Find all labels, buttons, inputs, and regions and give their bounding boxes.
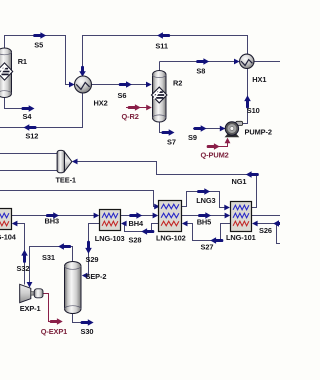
svg-text:HX1: HX1 — [252, 75, 266, 84]
svg-text:S32: S32 — [17, 264, 30, 273]
svg-text:S4: S4 — [23, 112, 33, 121]
svg-text:EXP-1: EXP-1 — [20, 304, 41, 313]
svg-text:Q-EXP1: Q-EXP1 — [41, 327, 68, 336]
svg-text:LNG-103: LNG-103 — [95, 234, 125, 243]
svg-text:R2: R2 — [173, 79, 182, 88]
svg-text:S30: S30 — [81, 327, 94, 336]
svg-text:Q-PUM2: Q-PUM2 — [201, 151, 229, 160]
svg-text:S6: S6 — [118, 91, 127, 100]
svg-text:NG1: NG1 — [232, 177, 247, 186]
svg-text:Q-R2: Q-R2 — [122, 112, 139, 121]
svg-text:SEP-2: SEP-2 — [86, 272, 107, 281]
svg-text:S12: S12 — [25, 131, 38, 140]
svg-text:TEE-1: TEE-1 — [56, 176, 76, 185]
svg-text:HX2: HX2 — [94, 98, 108, 107]
svg-text:S31: S31 — [42, 253, 55, 262]
svg-text:S10: S10 — [247, 106, 260, 115]
svg-text:S5: S5 — [34, 40, 43, 49]
svg-text:S8: S8 — [196, 66, 205, 75]
svg-text:BH5: BH5 — [197, 218, 212, 227]
svg-text:BH4: BH4 — [129, 219, 144, 228]
svg-text:S9: S9 — [188, 133, 197, 142]
svg-text:PUMP-2: PUMP-2 — [245, 128, 272, 137]
svg-text:S27: S27 — [201, 242, 214, 251]
svg-text:R1: R1 — [18, 57, 27, 66]
svg-text:BH3: BH3 — [45, 217, 60, 226]
svg-text:S29: S29 — [86, 255, 99, 264]
svg-text:S26: S26 — [259, 226, 272, 235]
svg-text:S7: S7 — [167, 138, 176, 147]
svg-text:LNG-101: LNG-101 — [226, 233, 256, 242]
svg-text:S11: S11 — [155, 41, 167, 50]
svg-text:LNG3: LNG3 — [196, 196, 215, 205]
svg-text:LNG-102: LNG-102 — [156, 234, 186, 243]
svg-text:S28: S28 — [129, 236, 142, 245]
svg-text:LNG-104: LNG-104 — [0, 233, 17, 242]
